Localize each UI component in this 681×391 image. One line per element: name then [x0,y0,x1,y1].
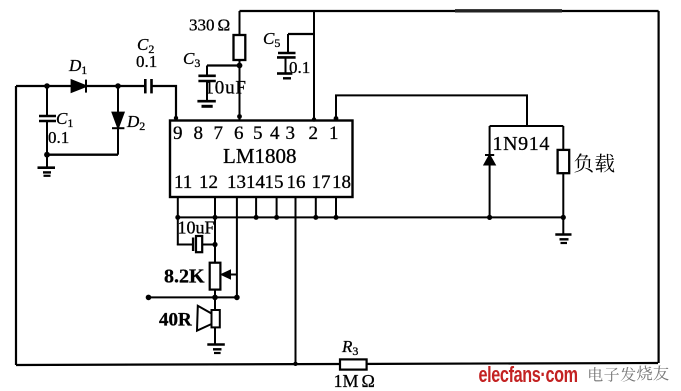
svg-text:16: 16 [287,172,306,193]
svg-text:D2: D2 [126,112,145,133]
resistor 330ohm body [234,11,246,121]
svg-text:13: 13 [227,172,246,193]
svg-text:3: 3 [286,123,296,144]
capacitor C2 [145,79,151,93]
node dot pin17 [313,215,318,220]
svg-text:9: 9 [173,123,183,144]
node dot pin 6 entry [237,114,242,119]
label load (fuzai) chinese glyph 载 [595,154,614,173]
wire pin 18 down [335,197,337,217]
wire pin 17 down [315,197,317,217]
svg-text:17: 17 [312,172,331,193]
capacitor C4 10uF horizontal [178,236,215,252]
svg-text:8.2K: 8.2K [164,266,205,288]
svg-text:7: 7 [214,123,224,144]
node junction dot C1 bottom [44,152,50,158]
node B junction dot at D2 top [115,83,121,89]
wire pin 14 down [255,197,257,217]
svg-text:1MΩ: 1MΩ [334,371,375,391]
svg-text:R3: R3 [341,337,358,358]
wire pin 2 vertical from top bus [313,11,315,121]
node dot rail2 left end [146,295,152,301]
wire pin 12 down to pot [214,197,216,263]
svg-text:12: 12 [199,172,218,193]
resistor load (fuzai) body [558,126,570,217]
svg-text:14: 14 [246,172,266,193]
wire rail2 (pot bottom rail) [148,296,237,298]
wire C1 bottom to D2 bottom [47,153,118,155]
node dot cap to pin12 wire [212,242,217,247]
svg-text:0.1: 0.1 [136,52,157,71]
wire left vertical bus [15,86,17,365]
svg-text:11: 11 [174,172,192,193]
svg-text:2: 2 [309,123,319,144]
diode 1N914 [485,126,495,217]
capacitor C5 [277,34,314,78]
svg-text:8: 8 [194,123,204,144]
watermark chinese glyph 烧 [637,365,652,380]
watermark chinese glyph 子 [604,368,619,382]
svg-text:1N914: 1N914 [493,133,550,155]
wire C2 to pin 9 [152,86,177,121]
node dot diode to rail [487,215,492,220]
potentiometer 8.2K body [210,263,221,290]
node A junction dot left of D1 [44,83,50,89]
svg-text:D1: D1 [68,56,87,77]
wire top bus [240,10,659,12]
node dot pin 1 entry [334,116,339,121]
node dot pin 2 entry [312,117,316,121]
node junction dot C3 tap on 330 wire [237,63,243,69]
speaker 40R [197,306,220,331]
svg-text:LM1808: LM1808 [223,144,297,168]
svg-text:C3: C3 [183,49,200,70]
svg-text:18: 18 [332,172,351,193]
svg-text:5: 5 [253,123,263,144]
node dot pin 9 entry [174,116,178,120]
wire rail2 to speaker [214,297,216,310]
diode D1 [72,80,86,93]
node dot pin16 to bottom bus [293,362,297,366]
ground below C1 [38,155,56,176]
wire pin 1 to 1N914 branch [336,95,527,126]
svg-text:6: 6 [234,123,244,144]
resistor R3 body on bottom bus [340,359,367,369]
svg-text:10uF: 10uF [178,218,215,238]
node dot load to rail [561,215,566,220]
node dot pin18 [334,215,339,220]
node dot pin15 [274,215,279,220]
svg-text:C1: C1 [56,109,73,130]
ground below load [555,217,571,243]
wire pin 16 down to bottom bus [295,197,297,364]
wire bottom bus [16,363,658,365]
diode D2 [112,86,124,155]
node dot rail start at pin 11 [175,215,180,220]
wire right vertical bus [657,11,659,363]
wire pot bottom stub [214,290,216,298]
capacitor C1 [39,86,56,155]
svg-text:1: 1 [329,123,339,144]
op-amp U1 LM1808 box [170,121,353,198]
svg-text:elecfans·com: elecfans·com [479,362,578,387]
wire pin 15 down [276,197,278,217]
wire pin 13 down to rail2 [236,197,238,297]
capacitor C3 electrolytic [197,66,239,107]
pot wiper arrow [221,270,237,279]
svg-text:4: 4 [270,123,280,144]
diode 1N914 branch top bracket [490,125,564,127]
node dot pot bottom [212,295,218,301]
ground below speaker [207,345,225,354]
svg-text:C5: C5 [263,29,280,50]
svg-text:0.1: 0.1 [289,58,310,77]
svg-text:15: 15 [265,172,284,193]
wire speaker to ground [214,327,216,344]
svg-text:10uF: 10uF [205,78,247,99]
svg-text:40R: 40R [159,310,192,331]
node dot rail2 right end [234,295,240,301]
watermark chinese glyph 发 [621,367,636,382]
svg-text:0.1: 0.1 [48,128,69,147]
wire ground rail under IC [178,216,564,218]
svg-text:330Ω: 330Ω [189,16,230,35]
label load (fuzai) chinese glyph 负 [574,153,592,172]
node dot pin12 rail crossing [213,215,218,220]
wire top bus smudge thick segment [455,9,562,12]
wire top-left horizontal (input) [16,85,145,87]
watermark chinese glyph 电 [589,367,602,381]
wire pin 11 down [177,197,179,245]
node dot pin14 [254,215,259,220]
watermark chinese glyph 友 [653,365,668,380]
